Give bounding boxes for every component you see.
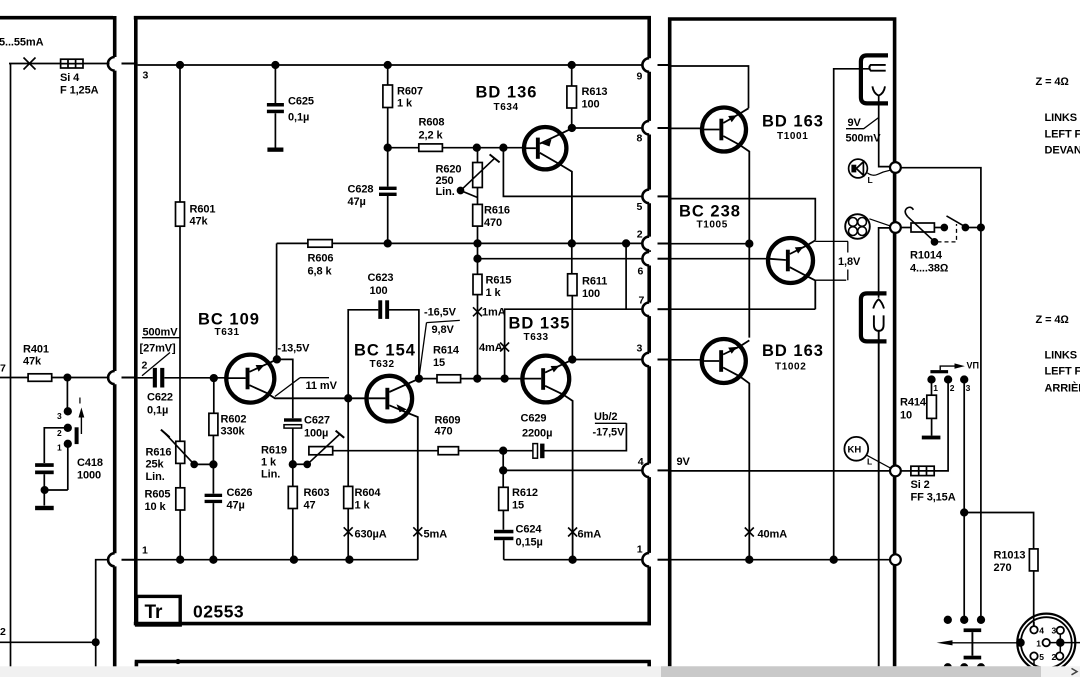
node wire2 R616 [474, 240, 481, 247]
svg-text:C625: C625 [288, 96, 314, 108]
bump pin 9 [642, 58, 649, 72]
transistor T1005 BC238 [768, 238, 815, 309]
scrollbar thumb [661, 666, 1041, 677]
annotation fraction 9V/500mV [846, 118, 879, 129]
bump pin 3 [642, 353, 649, 367]
stub pin 7 [658, 308, 672, 310]
node base T631 [211, 375, 218, 382]
capacitor C622 [138, 377, 227, 379]
svg-text:3: 3 [57, 411, 62, 421]
svg-text:47µ: 47µ [227, 500, 245, 512]
bump pin 4 [642, 464, 649, 478]
resistor R615 [473, 274, 482, 294]
stub pin 6 [658, 258, 672, 260]
svg-text:BD 163: BD 163 [762, 342, 824, 360]
wire contact 2 to fuse [934, 380, 948, 471]
node rail1 6mA [569, 556, 576, 563]
svg-text:LINKS: LINKS [1045, 112, 1078, 124]
svg-text:10 k: 10 k [145, 501, 167, 513]
R1014 wiper diagonal [908, 217, 935, 242]
selector contact 2 [945, 376, 952, 383]
svg-text:9V: 9V [677, 456, 691, 468]
svg-text:R604: R604 [355, 487, 382, 499]
rear speaker clover symbol [845, 214, 870, 239]
svg-text:BD 136: BD 136 [476, 84, 538, 102]
svg-text:C624: C624 [516, 524, 543, 536]
svg-text:C629: C629 [521, 413, 547, 425]
DIN socket inner [1021, 617, 1072, 668]
wire input from connector 7 [0, 377, 110, 379]
svg-text:Si 2: Si 2 [911, 479, 930, 491]
svg-text:1: 1 [933, 383, 938, 393]
svg-text:R401: R401 [23, 344, 49, 356]
bump pin 5 [642, 190, 649, 204]
node R613 emitter junction [569, 125, 576, 132]
switch blade open [947, 216, 964, 226]
stub pin 2 [658, 243, 672, 245]
node wire2 C628 [384, 240, 391, 247]
svg-text:BD 135: BD 135 [509, 315, 571, 333]
stub pin 4 [658, 469, 672, 471]
current mark X 6mA [568, 528, 577, 537]
wire R614 base T633 [419, 378, 523, 380]
node C418 junction [41, 487, 47, 493]
resistor R607 [387, 65, 389, 187]
svg-text:02553: 02553 [193, 602, 244, 622]
R414 end bar [922, 436, 941, 440]
capacitor C623 [378, 300, 389, 319]
svg-text:11 mV: 11 mV [306, 380, 338, 392]
svg-text:9: 9 [637, 71, 643, 83]
svg-text:2: 2 [142, 360, 148, 372]
wire rear lamp bottom stem [878, 331, 880, 677]
svg-text:T631: T631 [215, 327, 240, 338]
capacitor C627 electrolytic [284, 418, 302, 421]
wire 4 [503, 469, 643, 471]
svg-text:1: 1 [57, 443, 62, 453]
node collector T633 pin3 [569, 356, 576, 363]
wire rail 1 right segment [504, 559, 644, 561]
svg-text:47k: 47k [23, 356, 42, 368]
svg-text:R1013: R1013 [994, 550, 1026, 562]
wire R609 C629 line [333, 423, 627, 450]
svg-text:R608: R608 [419, 117, 445, 129]
svg-text:-16,5V: -16,5V [424, 307, 457, 319]
current mark X 1mA [473, 307, 482, 316]
lower pcb box top edge [135, 659, 651, 677]
DIN pin 3 [1057, 627, 1064, 634]
node wiper C627 R603 [290, 461, 297, 468]
transistor T631 BC109 [226, 355, 368, 403]
svg-text:3: 3 [966, 383, 971, 393]
resistor R414 [931, 380, 933, 436]
svg-text:25k: 25k [146, 459, 165, 471]
svg-text:T1005: T1005 [697, 220, 728, 231]
node rail3 R613 [568, 62, 575, 69]
resistor R614 [437, 375, 461, 383]
wire speaker to connector [867, 170, 890, 175]
wire R1014 to switch contact [934, 227, 941, 229]
stub pin 5 [658, 195, 672, 197]
potentiometer R616 25k [176, 441, 185, 463]
wire supply vertical [10, 64, 12, 677]
svg-text:R606: R606 [308, 253, 334, 265]
switch contact left [941, 225, 947, 231]
wire stub into main box at input [122, 377, 138, 379]
node collector T632 R614 [416, 375, 423, 382]
wire collector to C627 [277, 359, 293, 418]
DIN socket outer [1017, 614, 1075, 672]
Tr label box [137, 596, 181, 625]
DIN internal wires [1034, 622, 1080, 666]
svg-text:100: 100 [370, 285, 388, 297]
transistor T634 BD136 [524, 127, 572, 243]
svg-text:R612: R612 [512, 487, 538, 499]
scrollbar track [0, 666, 1080, 677]
svg-text:1: 1 [142, 545, 148, 557]
svg-text:VΠ: VΠ [967, 361, 980, 371]
svg-text:Tr: Tr [145, 602, 164, 623]
connector circle speaker L [890, 162, 901, 173]
node wire6 R615 [474, 255, 481, 262]
svg-text:R601: R601 [190, 204, 216, 216]
svg-text:4....38Ω: 4....38Ω [910, 263, 949, 275]
resistor R609 [438, 447, 458, 455]
wire switch to node [965, 227, 981, 229]
annotation bracket 1,8V [815, 241, 848, 280]
dial lamp top bracket [861, 55, 888, 103]
DIN junction dot [1057, 639, 1064, 646]
node rail3 R601 [177, 62, 184, 69]
DIN pin 1 [1043, 639, 1050, 646]
wire 7 to BC238 emitter [672, 308, 816, 310]
svg-text:3: 3 [637, 343, 643, 355]
svg-text:1,8V: 1,8V [838, 256, 861, 268]
speaker symbol L [849, 159, 868, 178]
potentiometer R620 [477, 151, 479, 204]
svg-text:T1002: T1002 [775, 362, 806, 373]
resistor R601 [176, 202, 185, 226]
wire x626 down to wire7 [625, 243, 627, 309]
svg-text:LINKS: LINKS [1045, 350, 1078, 362]
current mark X on fuse wire [24, 58, 36, 70]
svg-text:R620: R620 [436, 164, 462, 176]
wire 9V line [672, 470, 891, 472]
svg-text:Lin.: Lin. [261, 469, 280, 481]
svg-text:4: 4 [1039, 626, 1044, 636]
svg-text:R613: R613 [582, 86, 608, 98]
selector contact 3 [961, 376, 968, 383]
wire 5 to BC238 collector [672, 199, 816, 241]
dial lamp top filament contact [869, 65, 885, 71]
svg-text:L: L [868, 175, 873, 185]
dashed coupling [938, 224, 957, 242]
resistor R616 470 [473, 204, 483, 226]
svg-text:2: 2 [0, 626, 6, 638]
svg-text:8: 8 [637, 133, 643, 145]
svg-text:1 k: 1 k [261, 457, 277, 469]
svg-text:500mV: 500mV [143, 327, 179, 339]
svg-text:KH: KH [848, 445, 862, 456]
svg-text:2200µ: 2200µ [522, 428, 552, 440]
svg-text:330k: 330k [221, 426, 246, 438]
node R614 wire7 [501, 375, 508, 382]
svg-text:BC 154: BC 154 [354, 342, 416, 360]
wire R1013 to DIN pin 4 [1033, 571, 1035, 626]
resistor R1013 [1029, 549, 1038, 571]
DIN pin 4 [1030, 626, 1037, 633]
svg-text:2,2 k: 2,2 k [419, 130, 444, 142]
svg-text:0,15µ: 0,15µ [516, 537, 543, 549]
stub pin 3 [658, 359, 672, 361]
svg-text:1: 1 [1036, 639, 1041, 649]
wire R601 column [179, 65, 181, 441]
capacitor C624 [494, 530, 513, 540]
capacitor block stem [971, 632, 973, 656]
fuse Si 4 [61, 59, 83, 68]
node R614 R615 [474, 375, 481, 382]
svg-text:7: 7 [639, 295, 645, 307]
resistor R1014 [911, 223, 934, 232]
svg-text:C622: C622 [147, 392, 173, 404]
svg-text:9,8V: 9,8V [432, 324, 455, 336]
svg-text:C623: C623 [368, 272, 394, 284]
transistor T633 BD135 [522, 356, 572, 560]
svg-text:BC 238: BC 238 [679, 203, 741, 221]
svg-text:40mA: 40mA [758, 529, 788, 541]
node wire4 [500, 467, 507, 474]
annotation underline 500mV [142, 337, 180, 339]
resistor R612 [502, 470, 504, 529]
connector bump on left box edge (input pin) [108, 371, 115, 384]
node input junction [64, 374, 70, 380]
fuse Si 2 [911, 466, 934, 475]
svg-text:6,8 k: 6,8 k [308, 266, 333, 278]
resistor R613 [571, 65, 573, 128]
capacitor C629 electrolytic [533, 444, 538, 459]
node R1014 wiper [932, 239, 938, 245]
svg-text:LEFT F: LEFT F [1045, 129, 1080, 141]
svg-text:Si 4: Si 4 [60, 72, 80, 84]
connector bump on left box edge (pin 1 rail) [108, 553, 115, 566]
wire 5 from base T634 [503, 148, 643, 197]
wire pin 8 [572, 127, 643, 129]
dial lamp top fork contact [872, 86, 885, 95]
svg-text:2: 2 [637, 229, 643, 241]
svg-text:Lin.: Lin. [436, 186, 455, 198]
svg-text:3: 3 [143, 70, 149, 82]
node rail3 C625 [272, 62, 279, 69]
left module box frame [0, 16, 115, 677]
node emitter wire junction [345, 395, 352, 402]
svg-text:T634: T634 [494, 102, 519, 113]
switch contact 3 [65, 408, 72, 415]
svg-text:2: 2 [1052, 652, 1057, 662]
resistor R401 [28, 374, 52, 382]
wire connector 2 to rear lamp [879, 228, 891, 298]
wire contact 1 down [45, 447, 68, 490]
svg-text:470: 470 [484, 217, 502, 229]
wire 3 to T1002 base [672, 359, 703, 361]
current mark X 5mA [413, 527, 422, 536]
node rail1 R604 [346, 556, 353, 563]
wire connector L to switch [901, 168, 981, 619]
bump pin 2 [642, 237, 649, 251]
svg-text:1mA: 1mA [482, 307, 506, 319]
connector pad row 2 [945, 664, 952, 671]
main amplifier box frame [134, 16, 651, 625]
node rail1 C626 [210, 556, 217, 563]
svg-text:F 1,25A: F 1,25A [60, 85, 99, 97]
svg-text:1 k: 1 k [486, 287, 502, 299]
svg-text:R605: R605 [145, 489, 171, 501]
svg-text:6mA: 6mA [578, 529, 602, 541]
svg-text:5: 5 [1039, 652, 1044, 662]
wire rail 1 in output box [672, 559, 891, 561]
wire arrow to DIN [941, 642, 1017, 644]
selector VPI arrow [940, 366, 956, 370]
node rail1 R603 [291, 556, 298, 563]
wire connector rear to R1014 [901, 227, 911, 229]
wire 6 [478, 258, 644, 260]
svg-text:100µ: 100µ [304, 428, 328, 440]
node wire2 emitter T634 [569, 240, 576, 247]
wire contact 2 to C418 [44, 428, 66, 463]
selector contact 1 [928, 376, 935, 383]
bump pin 6 [642, 252, 649, 266]
svg-text:4: 4 [638, 456, 644, 468]
wire stub into main box at pin 3 [122, 63, 138, 65]
wire 2 long [277, 242, 644, 244]
svg-text:ARRIÈR: ARRIÈR [1045, 382, 1080, 395]
current mark X 40mA [745, 528, 754, 537]
svg-text:I: I [79, 396, 81, 406]
svg-text:C418: C418 [77, 457, 103, 469]
svg-text:BC 109: BC 109 [198, 311, 260, 329]
svg-text:Ub/2: Ub/2 [594, 411, 617, 423]
svg-text:1000: 1000 [77, 470, 101, 482]
resistor R604 [344, 486, 353, 508]
output module box frame [668, 17, 896, 677]
node R1013 branch [961, 509, 968, 516]
svg-text:4mA: 4mA [479, 342, 503, 354]
transistor T632 BC154 [367, 376, 420, 560]
wire KH to connector [867, 455, 891, 468]
selector VPI wiper bar [930, 370, 948, 373]
wire 3 [572, 359, 643, 361]
svg-text:L: L [867, 457, 872, 467]
node bottom wire junction [93, 639, 99, 645]
wire fuse to connector [901, 470, 911, 472]
wire lamp return left and down [834, 69, 870, 560]
resistor R606 6,8k [308, 240, 332, 248]
node wire2 x626 [623, 240, 630, 247]
svg-text:15: 15 [512, 500, 524, 512]
svg-text:T632: T632 [370, 359, 395, 370]
wire rail 1 inside left box [96, 560, 110, 677]
svg-text:DEVANT: DEVANT [1045, 145, 1080, 157]
svg-text:270: 270 [994, 562, 1012, 574]
svg-text:10: 10 [900, 410, 912, 422]
switch contact 1 [65, 441, 72, 448]
DIN pin 5 [1030, 652, 1037, 659]
wire 9 to T1001 collector [672, 66, 749, 108]
wire link C629 to wire4 [502, 451, 504, 471]
DIN pin 2 [1056, 652, 1063, 659]
svg-text:T633: T633 [524, 332, 549, 343]
svg-text:0,1µ: 0,1µ [288, 112, 309, 124]
capacitor block top bar [964, 628, 982, 632]
wire rail 1 left segment [138, 559, 418, 561]
rear lamp fork contact [873, 299, 884, 308]
stub pin 8 [658, 127, 672, 129]
svg-text:500mV: 500mV [846, 133, 882, 145]
svg-text:6: 6 [638, 266, 644, 278]
svg-text:R616: R616 [484, 205, 510, 217]
svg-text:-13,5V: -13,5V [278, 343, 311, 355]
wire 2 into box [672, 243, 750, 245]
svg-text:1 k: 1 k [397, 98, 413, 110]
wire C418 bottom [43, 474, 45, 505]
transistor T1002 BD163 [702, 339, 750, 560]
svg-text:C626: C626 [227, 487, 253, 499]
svg-text:C628: C628 [348, 184, 374, 196]
svg-text:2: 2 [57, 428, 62, 438]
wire R605 column [179, 463, 181, 559]
node wire2 T1001 emitter [746, 240, 753, 247]
svg-text:1: 1 [637, 544, 643, 556]
connector circle rear [890, 222, 901, 233]
svg-text:630µA: 630µA [355, 529, 387, 541]
bump pin 8 [642, 121, 649, 135]
wire clover to connector [869, 219, 891, 226]
switch contact right [962, 225, 968, 231]
annotation pointer 11mV [275, 378, 329, 397]
wire R608 base line [388, 147, 525, 149]
connector bump on left box edge (pin at 63.5) [108, 57, 115, 71]
svg-text:0,1µ: 0,1µ [147, 405, 168, 417]
rear lamp filament U [874, 315, 884, 330]
svg-text:47k: 47k [190, 216, 209, 228]
wire rail 3-9 top [138, 64, 644, 66]
svg-text:Z = 4Ω: Z = 4Ω [1036, 314, 1070, 326]
current mark X 4mA [500, 343, 509, 352]
capacitor C626 [205, 494, 223, 503]
wire to R1013 [964, 513, 1033, 549]
headphones KH symbol [844, 437, 868, 461]
wire 6 to BC238 base [672, 258, 769, 260]
svg-text:Lin.: Lin. [146, 471, 165, 483]
resistor R602 [212, 378, 214, 494]
rear lamp bracket [861, 293, 887, 341]
chassis terminal bar [35, 506, 54, 510]
svg-text:LEFT F: LEFT F [1045, 366, 1080, 378]
node rail1 lamp return [830, 556, 837, 563]
stub pin 9 [658, 64, 672, 66]
wire 7 [505, 309, 644, 378]
svg-text:470: 470 [435, 426, 453, 438]
svg-text:FF 3,15A: FF 3,15A [911, 492, 956, 504]
resistor R603 [288, 486, 297, 508]
transistor T1001 BD163 [702, 108, 749, 338]
svg-text:Z = 4Ω: Z = 4Ω [1036, 76, 1070, 88]
connector pad row 1 [945, 617, 952, 624]
connector circle 9V [890, 466, 901, 477]
capacitor C628 [379, 187, 397, 196]
svg-text:9V: 9V [848, 117, 862, 129]
annotation fraction Ub/2 [595, 422, 627, 424]
wire C623 loop [348, 310, 419, 399]
